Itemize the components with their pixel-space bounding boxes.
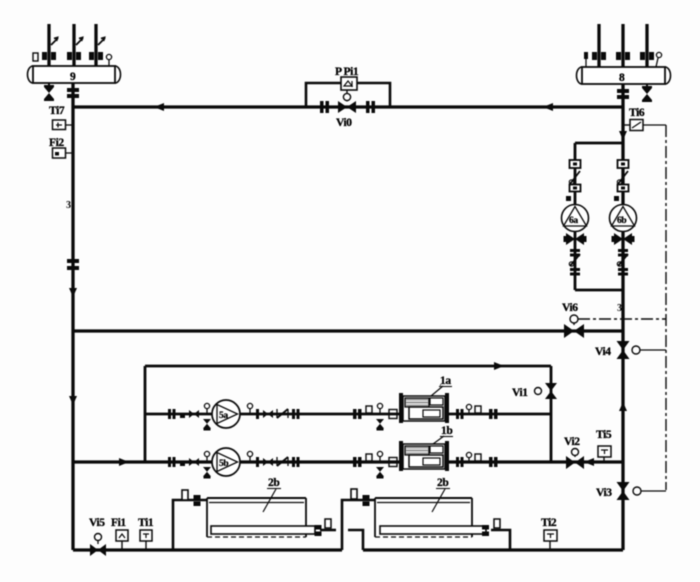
vessel 9 body (28, 66, 121, 83)
svg-text:2b: 2b (268, 477, 279, 489)
stub L2 (366, 454, 372, 461)
flange on tank1 feed (194, 495, 201, 506)
flange at tank2 coil outlet (482, 525, 489, 536)
small valve L1 (189, 410, 199, 418)
small mark left of vessel 8 flanges (584, 52, 588, 67)
pump line 5a components (168, 400, 397, 431)
label 1a with leader (431, 375, 452, 396)
svg-text:6a: 6a (569, 216, 578, 226)
svg-text:6b: 6b (617, 216, 626, 226)
svg-text:1a: 1a (440, 375, 451, 387)
flange pair L2 (168, 457, 176, 467)
instrument Ti5 box (598, 446, 611, 462)
flange pair 2 L1 (292, 409, 300, 419)
instrument Ti1 box (140, 530, 152, 550)
vessel 9 top nozzle pipe 3 (94, 24, 97, 66)
flange on vessel 9 pipe 2 (67, 52, 81, 60)
flange 3 L2 (353, 457, 362, 467)
wire: tank2 coil outlet (491, 530, 510, 550)
wire: upper recirculation line (145, 365, 551, 368)
flange 2 on 6a branch (570, 185, 581, 192)
flange pair below pump 6b (618, 249, 628, 257)
tank 2b first (207, 498, 315, 537)
signal wire from Ti6 (643, 124, 666, 126)
svg-text:Vi0: Vi0 (336, 117, 352, 129)
flange pair below pump 6a (570, 249, 580, 257)
arrow left on top line right (543, 103, 553, 111)
actuator circle of valve Vi0 (343, 90, 350, 102)
svg-text:Ti6: Ti6 (629, 107, 645, 119)
vessel 9 top nozzle pipe 1 (47, 24, 50, 66)
flange after pump 5b (256, 457, 259, 467)
arrow up on right riser (619, 402, 627, 411)
label 1b with leader (433, 425, 453, 444)
flange on tank2 feed (363, 495, 370, 506)
tick L1 (180, 414, 185, 418)
svg-text:Vi1: Vi1 (512, 387, 528, 399)
pump line 5b components (168, 448, 397, 479)
flange end L2 (489, 457, 498, 467)
flange on vessel 8 pipe 3 (640, 52, 654, 60)
tank 2b second (375, 498, 486, 537)
svg-text:Ti5: Ti5 (596, 429, 612, 441)
instrument Fi1 box (116, 530, 128, 550)
flange right of Vi0 (366, 101, 375, 113)
arrow down on left downcomer upper (69, 288, 77, 297)
svg-text:5a: 5a (219, 411, 228, 421)
vessel 8 drain valve (642, 84, 652, 102)
wire: Vi0 bypass loop (306, 83, 390, 107)
small valve 2 L1 (263, 410, 273, 418)
svg-text:Vi4: Vi4 (595, 346, 611, 358)
wire: coil outlet jump and step down (348, 530, 363, 550)
valve Vi6 (564, 324, 584, 338)
flange after pump 5a (256, 409, 259, 419)
valve below pump 6b (612, 233, 635, 245)
wire: pump 6b branch (622, 143, 625, 290)
wire: pump 6a branch (574, 143, 577, 290)
flange at tank1 coil outlet (315, 525, 322, 536)
valve below pump 6a (564, 233, 587, 245)
actuator circle of valve Vi6 (570, 315, 578, 325)
vessel 9 top nozzle pipe 2 (72, 24, 75, 66)
valve Vi4 (617, 341, 630, 359)
signal wire vertical dash-dot (665, 125, 667, 490)
pump 5a (212, 400, 240, 428)
wire: vessel 9 downcomer (71, 83, 74, 550)
vent tick on vessel 9 pipe 1 (51, 38, 58, 46)
valve Vi3 (617, 482, 630, 500)
flange on vessel 8 pipe 2 (616, 52, 630, 60)
vent circle and drain L2 (203, 451, 211, 478)
label 2b second with leader (432, 477, 450, 512)
actuator circle of Vi4 (632, 346, 640, 354)
instrument Fi2 box (53, 148, 74, 158)
svg-text:Vi3: Vi3 (596, 487, 612, 499)
svg-text:8: 8 (619, 72, 625, 84)
wire: vessel 8 downcomer (621, 84, 624, 331)
svg-text:5b: 5b (219, 459, 228, 469)
stub after meter 1b (475, 454, 481, 461)
vent tick on vessel 9 pipe 2 (76, 38, 83, 46)
actuator circle of Vi1 (535, 388, 542, 395)
svg-text:9: 9 (70, 71, 76, 83)
valve Vi0 (338, 101, 356, 113)
flange 2 on 6b branch (618, 185, 629, 192)
instrument Ti7 box (53, 120, 74, 130)
wire: pump branch top header (575, 142, 623, 145)
flange pair 2 on 6b branch (618, 268, 628, 276)
small mark left of vessel 9 flanges (33, 53, 38, 61)
small tap square on 6b branch (614, 196, 619, 201)
wire: bottom line left segment (73, 548, 342, 551)
instrument Pi1 box (341, 77, 357, 90)
label 2b first with leader (263, 477, 281, 512)
after meter 1a components (456, 404, 498, 419)
stub on tank2 coil outlet (494, 519, 500, 528)
check valve on 6b branch (617, 171, 628, 184)
wire: pump branch bottom header (575, 289, 623, 292)
wire: Vi1 riser (550, 366, 553, 462)
svg-text:Fi2: Fi2 (49, 137, 64, 149)
vessel 9 bottom nozzle flange (67, 88, 79, 98)
vessel 8 top nozzle pipe 3 (645, 24, 648, 67)
flange pair L1 (168, 409, 176, 419)
svg-text:Ti7: Ti7 (49, 105, 65, 117)
check valve on 6a branch (569, 171, 580, 184)
signal wire Ti6 to Vi6 dash-dot (578, 318, 666, 320)
vessel 8 body (577, 67, 671, 84)
flange left of Vi0 (320, 101, 329, 113)
pump 6b (610, 205, 637, 232)
arrow down on left downcomer lower (69, 396, 77, 405)
svg-text:Vi6: Vi6 (562, 302, 578, 314)
after meter 1b components (456, 452, 498, 467)
flange pair 2 L2 (292, 457, 300, 467)
vent circle after meter 1b (466, 452, 471, 462)
orifice square L2 (389, 458, 397, 467)
valve Vi1 (545, 383, 557, 399)
wire: pump suction manifold riser (144, 366, 147, 462)
orifice square L1 (389, 410, 397, 419)
svg-text:P Pi1: P Pi1 (335, 66, 359, 78)
vent circle and drain 2 L2 (376, 451, 384, 478)
flange pair after meter 1a (456, 409, 464, 419)
signal tap to Vi4 (640, 349, 666, 351)
small mark right of vessel 9 flanges (106, 54, 111, 66)
stub on tank1 coil outlet (325, 519, 331, 528)
flange on vessel 9 pipe 1 (42, 52, 56, 60)
wire: pump 5a line (145, 413, 551, 416)
svg-text:Ti1: Ti1 (138, 517, 154, 529)
vent tick on vessel 9 pipe 3 (98, 38, 105, 46)
vent circle and drain L1 (203, 403, 211, 430)
check valve 2 on 6b branch (617, 254, 628, 266)
wire: middle transfer line (73, 329, 623, 332)
vent circle after meter 1a (466, 404, 471, 414)
flange on vessel 9 pipe 3 (89, 52, 103, 60)
stub L1 (366, 406, 372, 413)
flow meter 1a (399, 393, 449, 423)
svg-text:2b: 2b (437, 477, 448, 489)
vessel 9 drain valve (44, 83, 54, 101)
svg-text:Fi1: Fi1 (111, 517, 126, 529)
arrow left on top line (154, 103, 164, 111)
svg-text:3: 3 (66, 200, 71, 211)
wire: bottom line right segment (363, 548, 623, 551)
check valve L2 (277, 457, 288, 466)
arrow left on 5b line right (584, 458, 594, 466)
small valve L2 (189, 458, 199, 466)
actuator circle of Vi2 (572, 449, 579, 458)
flange 3 L1 (353, 409, 362, 419)
small valve 2 L2 (263, 458, 273, 466)
flange pair after meter 1b (456, 457, 464, 467)
stub on tank1 feed (182, 490, 188, 500)
svg-text:1b: 1b (441, 425, 452, 437)
flange on 6a branch (570, 160, 581, 168)
valve Vi2 (566, 456, 584, 469)
pump 5b (212, 448, 240, 476)
vent circle and drain 2 L1 (376, 403, 384, 430)
flange pair on left downcomer (67, 259, 79, 270)
actuator circle of Vi3 (633, 487, 641, 495)
check valve L1 (277, 409, 288, 418)
stub on tank2 feed (351, 489, 357, 499)
wire: pump 5b line (73, 460, 623, 463)
wire: tank1 coil outlet (320, 529, 336, 532)
arrow down on vessel 8 downcomer (619, 131, 627, 140)
vessel 8 top nozzle pipe 1 (597, 24, 600, 67)
flange end L1 (489, 409, 498, 419)
svg-text:Ti2: Ti2 (541, 517, 557, 529)
check valve 2 on 6a branch (569, 254, 580, 266)
small tap square on 6a branch (566, 196, 571, 201)
wire: right main riser lower (621, 331, 624, 550)
arrow right on 5b line (119, 458, 129, 466)
wire: top transfer line (73, 105, 623, 108)
flange on vessel 8 pipe 1 (592, 52, 606, 60)
flange on 6b branch (618, 160, 629, 168)
tick L2 (180, 462, 185, 466)
svg-text:Vi2: Vi2 (564, 436, 580, 448)
vessel 8 top nozzle pipe 2 (621, 24, 624, 67)
vent circle after pump 5a (247, 403, 252, 414)
small mark right of vessel 8 flanges (656, 52, 662, 67)
arrow right on recirculation line (494, 362, 504, 370)
instrument Ti6 box (623, 120, 643, 131)
valve Vi5 (95, 534, 102, 545)
svg-text:Vi5: Vi5 (89, 517, 105, 529)
flange pair 2 on 6a branch (570, 268, 580, 276)
instrument Ti2 box (544, 530, 557, 550)
vessel 8 bottom nozzle flange (617, 89, 629, 99)
pump 6a (562, 205, 589, 232)
vent circle after pump 5b (247, 451, 252, 462)
wire: tank1 feed riser (173, 500, 207, 550)
flow meter 1b (399, 441, 449, 471)
svg-text:3: 3 (617, 303, 622, 314)
signal tap to Vi3 (641, 490, 666, 492)
stub after meter 1a (475, 406, 481, 413)
wire: tank2 feed riser (342, 500, 375, 550)
